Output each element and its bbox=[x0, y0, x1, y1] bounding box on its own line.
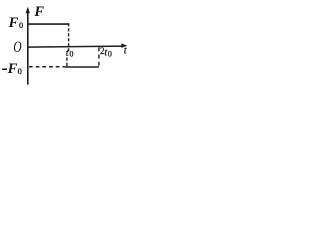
svg-text:F: F bbox=[33, 4, 44, 20]
dashed horizontal guide at -F0 bbox=[29, 66, 65, 68]
F axis (vertical) bbox=[27, 11, 29, 85]
svg-text:0: 0 bbox=[18, 67, 22, 76]
dashed vertical at t0 (lower, to -F0 line) bbox=[66, 58, 68, 68]
svg-text:F: F bbox=[7, 61, 18, 77]
svg-text:0: 0 bbox=[19, 21, 23, 30]
svg-text:F: F bbox=[8, 15, 19, 31]
dashed vertical at t0 (upper, from F0 line through axis) bbox=[68, 23, 70, 51]
svg-text:0: 0 bbox=[108, 49, 112, 58]
dashed vertical at 2t0 bbox=[98, 47, 100, 67]
svg-text:0: 0 bbox=[70, 50, 74, 59]
step line at -F0 (solid) bbox=[65, 66, 99, 68]
step line at +F0 bbox=[29, 23, 70, 25]
label -F0 bbox=[2, 69, 7, 71]
F axis arrowhead bbox=[26, 7, 30, 14]
background bbox=[0, 0, 129, 87]
svg-text:O: O bbox=[13, 39, 21, 56]
t axis (horizontal) bbox=[27, 46, 122, 47]
t axis arrowhead bbox=[121, 43, 127, 48]
